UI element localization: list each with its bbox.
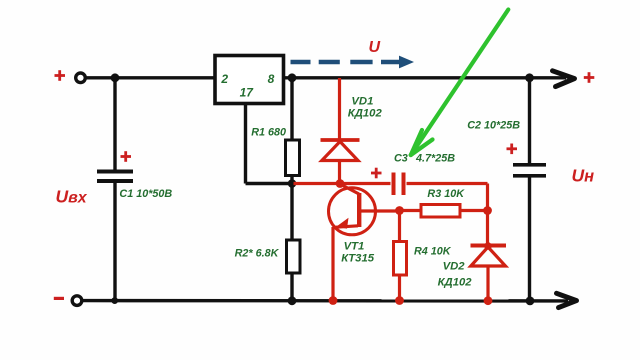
svg-text:КД102: КД102 — [348, 107, 383, 119]
svg-text:Uн: Uн — [572, 165, 595, 185]
svg-text:Uвх: Uвх — [56, 187, 88, 207]
svg-text:4.7*25В: 4.7*25В — [415, 152, 455, 164]
svg-text:VD1: VD1 — [351, 95, 373, 107]
svg-text:17: 17 — [240, 86, 255, 100]
svg-text:2: 2 — [220, 72, 228, 86]
svg-text:VD2: VD2 — [443, 261, 466, 273]
svg-text:VT1: VT1 — [344, 241, 365, 253]
svg-text:C3: C3 — [394, 152, 408, 164]
svg-text:КД102: КД102 — [438, 277, 473, 289]
svg-text:R3 10K: R3 10K — [427, 188, 465, 200]
svg-text:R2* 6.8K: R2* 6.8K — [235, 247, 280, 259]
svg-text:8: 8 — [268, 72, 275, 86]
svg-text:C2 10*25В: C2 10*25В — [467, 119, 520, 131]
svg-text:R4 10K: R4 10K — [414, 246, 452, 258]
svg-text:U: U — [369, 39, 381, 56]
svg-text:C1 10*50В: C1 10*50В — [119, 188, 172, 200]
svg-text:КТ315: КТ315 — [341, 253, 375, 265]
svg-text:R1 680: R1 680 — [251, 126, 286, 138]
